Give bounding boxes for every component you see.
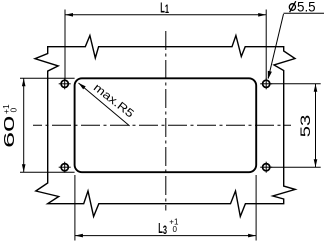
leader arrowhead at corner bbox=[78, 83, 85, 90]
hole bottom-left bbox=[59, 162, 71, 173]
svg-text:3: 3 bbox=[163, 224, 167, 237]
panel outline with break lines bbox=[35, 36, 295, 217]
svg-text:L: L bbox=[160, 1, 165, 16]
arrow L1 right bbox=[258, 13, 266, 17]
svg-text:5.5: 5.5 bbox=[297, 0, 316, 14]
label dia 5.5 bbox=[289, 0, 315, 14]
hole top-left bbox=[59, 78, 71, 89]
leader max.R5 bbox=[79, 83, 130, 126]
svg-text:0: 0 bbox=[9, 108, 19, 113]
arrow L3 right bbox=[248, 234, 256, 238]
dim 60 line bbox=[23, 78, 25, 172]
dim 60 extension top (cutout top edge extended left) bbox=[20, 77, 75, 79]
arrow L3 left bbox=[75, 234, 83, 238]
svg-text:0: 0 bbox=[173, 225, 178, 234]
label L1 bbox=[160, 1, 169, 16]
arrow L1 left bbox=[65, 13, 73, 17]
svg-text:1: 1 bbox=[165, 3, 169, 16]
panel cutout (rounded rectangle) bbox=[75, 78, 257, 172]
dim L3 line bbox=[75, 235, 256, 237]
svg-text:L: L bbox=[158, 222, 163, 237]
label L3 +1/0 bbox=[158, 217, 179, 237]
arrow 53 top bbox=[314, 84, 318, 92]
dim 53 extension top bbox=[271, 83, 321, 85]
leader arrowhead at hole bbox=[268, 71, 272, 80]
vertical center line bbox=[165, 31, 167, 211]
dim L1 extension left bbox=[64, 10, 66, 81]
horizontal center line bbox=[33, 124, 291, 126]
svg-text:53: 53 bbox=[297, 115, 313, 138]
dim 53 line bbox=[315, 84, 317, 167]
dim 60 extension bottom bbox=[20, 171, 75, 173]
dim L3 extension left bbox=[74, 175, 76, 241]
label 60 +1/0 (rotated) bbox=[1, 104, 19, 148]
svg-text:60: 60 bbox=[1, 116, 17, 148]
leader for hole diameter bbox=[268, 14, 283, 78]
dim L3 extension right bbox=[255, 175, 257, 241]
arrow 60 bottom bbox=[22, 164, 26, 172]
hole top-right bbox=[260, 78, 272, 89]
arrow 60 top bbox=[22, 78, 26, 86]
hole bottom-right bbox=[260, 162, 272, 173]
dim L1 extension right bbox=[265, 10, 267, 80]
dim 53 extension bottom bbox=[271, 166, 321, 168]
dim L1 line bbox=[65, 14, 266, 16]
arrow 53 bottom bbox=[314, 159, 318, 167]
